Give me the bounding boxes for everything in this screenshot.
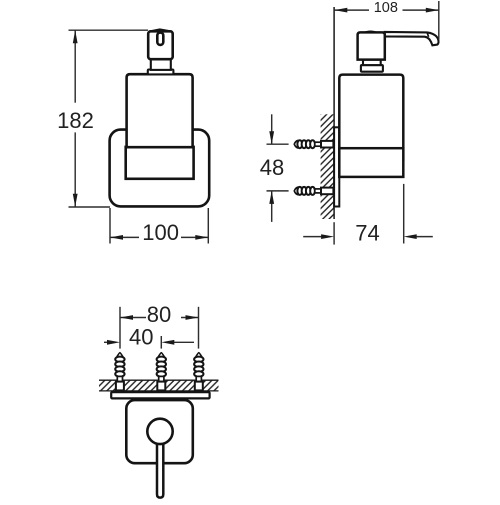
40 arrows (outside) — [107, 340, 120, 345]
screw plan right — [194, 353, 203, 391]
screw plan center — [157, 353, 166, 391]
screw side upper — [294, 140, 333, 148]
182 dimension line — [74, 30, 76, 103]
svg-text:108: 108 — [374, 0, 398, 16]
100 dimension line — [110, 236, 139, 238]
100 arrows — [110, 235, 123, 240]
holder ring side — [339, 148, 403, 177]
spout arm — [385, 32, 439, 45]
pump head circle plan — [147, 419, 172, 444]
182 extension line top — [69, 29, 149, 31]
wall hatch — [321, 114, 335, 219]
svg-text:182: 182 — [57, 108, 94, 133]
svg-text:40: 40 — [129, 324, 153, 349]
80 arrows — [120, 315, 133, 320]
80 dimension line — [120, 317, 146, 319]
svg-text:48: 48 — [260, 155, 284, 180]
svg-text:80: 80 — [147, 302, 171, 327]
svg-text:100: 100 — [142, 220, 179, 245]
108 dimension line — [334, 9, 369, 11]
front view dimensions — [69, 30, 209, 243]
74 arrow tails — [303, 236, 322, 238]
screw side lower — [294, 187, 333, 195]
pump head dome front — [149, 29, 173, 31]
holder ring band front — [126, 147, 194, 179]
48 dimension line tails — [271, 114, 273, 144]
74 extension lines — [333, 222, 335, 244]
pump neck side — [363, 60, 381, 66]
spout stem plan — [157, 431, 163, 498]
pump head slot front — [157, 33, 163, 45]
pump head side — [358, 32, 385, 59]
108 arrows — [334, 8, 347, 13]
100 extension lines — [109, 208, 111, 244]
wall strip borders — [99, 379, 219, 381]
plan view dimensions — [104, 307, 199, 349]
74 arrows — [321, 234, 334, 239]
pump cap dome side (black) — [363, 30, 379, 33]
80/40 extension lines — [119, 307, 121, 349]
bottle body front — [127, 74, 193, 147]
48 tick lower — [267, 190, 289, 192]
screw plan left — [115, 353, 124, 391]
mounting plate plan — [111, 392, 209, 398]
48 tick upper — [267, 143, 289, 145]
40 leader — [172, 341, 194, 343]
108 right extension — [438, 1, 440, 40]
48 arrows — [269, 131, 274, 144]
182 arrows — [73, 30, 209, 240]
wall face line — [333, 7, 335, 219]
side view dimensions — [267, 1, 439, 245]
svg-text:74: 74 — [355, 221, 379, 246]
spout seam line — [427, 33, 429, 37]
bottle side — [339, 75, 403, 160]
back plate (holder) front outline — [110, 130, 210, 207]
182 extension line bottom — [69, 206, 111, 208]
pump collar front — [148, 70, 174, 75]
pump neck front — [151, 59, 171, 70]
pump collar side — [361, 65, 383, 72]
pump head front — [148, 31, 173, 59]
wall strip hatch — [99, 380, 219, 391]
mounting plate side — [334, 127, 339, 206]
holder ring plan — [126, 400, 193, 463]
